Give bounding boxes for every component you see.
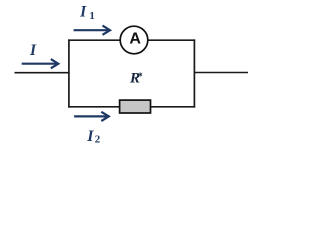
svg-text:1: 1 <box>89 10 95 22</box>
svg-text:I: I <box>86 128 94 145</box>
current label I2 (bottom branch) <box>86 128 101 146</box>
wire bottom branch left <box>68 106 120 108</box>
wire bottom branch right <box>150 106 195 108</box>
current arrow I2 (bottom branch) <box>74 112 109 121</box>
wire input left <box>15 72 70 74</box>
wire output right <box>194 72 248 74</box>
svg-text:*: * <box>138 72 143 83</box>
current arrow I (input) <box>22 59 59 68</box>
svg-text:2: 2 <box>95 134 101 146</box>
wire right riser <box>193 39 195 107</box>
current arrow I1 (top branch) <box>74 26 110 35</box>
wire top branch right <box>149 39 196 41</box>
current label I1 (top branch) <box>79 4 95 22</box>
ammeter U1 circle <box>120 26 148 54</box>
svg-text:I: I <box>29 42 37 59</box>
wire left riser <box>68 39 70 107</box>
svg-text:A: A <box>129 31 141 48</box>
resistor value label R* <box>129 71 143 87</box>
resistor R* body <box>120 100 151 113</box>
wire top branch left <box>68 39 120 41</box>
svg-text:I: I <box>79 4 87 21</box>
